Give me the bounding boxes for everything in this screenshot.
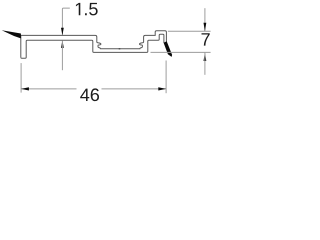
- profile inner outline: [21, 34, 164, 58]
- dim 1.5 leader lower: [61, 41, 63, 71]
- dim 1.5 arrow up: [61, 40, 64, 48]
- dim 1.5 arrow down: [61, 28, 64, 36]
- dim 46 ext line right: [165, 61, 167, 94]
- dim 7 arrow down: [204, 23, 207, 32]
- dim 46 text: [80, 88, 99, 101]
- dim 1.5 leader upper: [62, 8, 69, 35]
- dim 7 arrow up: [204, 52, 207, 61]
- dim 7 ext line top: [168, 30, 211, 32]
- right barb (filled): [164, 41, 173, 57]
- left barb (filled): [2, 30, 21, 38]
- dim 7 text: [202, 33, 210, 45]
- dim 7 leader top: [204, 8, 206, 31]
- profile outer outline: [21, 31, 167, 57]
- dim 46 line left segment: [21, 88, 76, 90]
- floor center tick: [119, 48, 121, 50]
- dim 7 ext line bottom (continues floor bottom): [151, 51, 211, 53]
- dim 7 leader bottom: [204, 53, 206, 75]
- dim 46 ext line left: [20, 63, 22, 93]
- dim 46 arrow left: [21, 87, 29, 90]
- dim 46 line right segment: [102, 88, 166, 90]
- dim 46 arrow right: [158, 87, 166, 90]
- dim 1.5 text: [76, 3, 98, 16]
